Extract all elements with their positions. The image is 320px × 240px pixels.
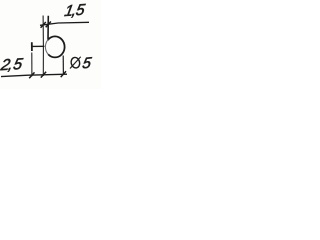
dimension line (1,5) top <box>40 22 89 25</box>
extension line for Ø5 (x=63.3) <box>62 56 64 75</box>
label Ø5: digit 5 <box>81 55 93 73</box>
extension line left (x=43) through part <box>42 16 44 77</box>
rivet head left arc (faint) <box>45 39 48 54</box>
label Ø5: diameter slash <box>70 57 81 69</box>
label 2,5 <box>0 56 24 74</box>
dimension line bottom <box>1 74 67 76</box>
tick bottom left (2,5) <box>29 72 34 78</box>
extension line right (x=48) <box>47 16 49 41</box>
tick bottom middle <box>41 72 46 78</box>
extension line bottom-left (x=31.8) <box>31 53 33 77</box>
label Ø5: diameter symbol oval <box>70 57 81 69</box>
shank end face bar <box>31 42 33 51</box>
tick at right 1,5 <box>46 22 51 28</box>
tick bottom right (Ø5) <box>61 71 66 77</box>
tick at left 1,5 <box>41 22 46 28</box>
rivet head (sphere, Ø5) bold arc <box>48 36 64 57</box>
svg-text:5: 5 <box>81 55 93 73</box>
shank line <box>32 45 45 47</box>
label 1,5 <box>63 2 86 20</box>
svg-text:1,5: 1,5 <box>63 2 86 20</box>
svg-text:2,5: 2,5 <box>0 56 24 74</box>
